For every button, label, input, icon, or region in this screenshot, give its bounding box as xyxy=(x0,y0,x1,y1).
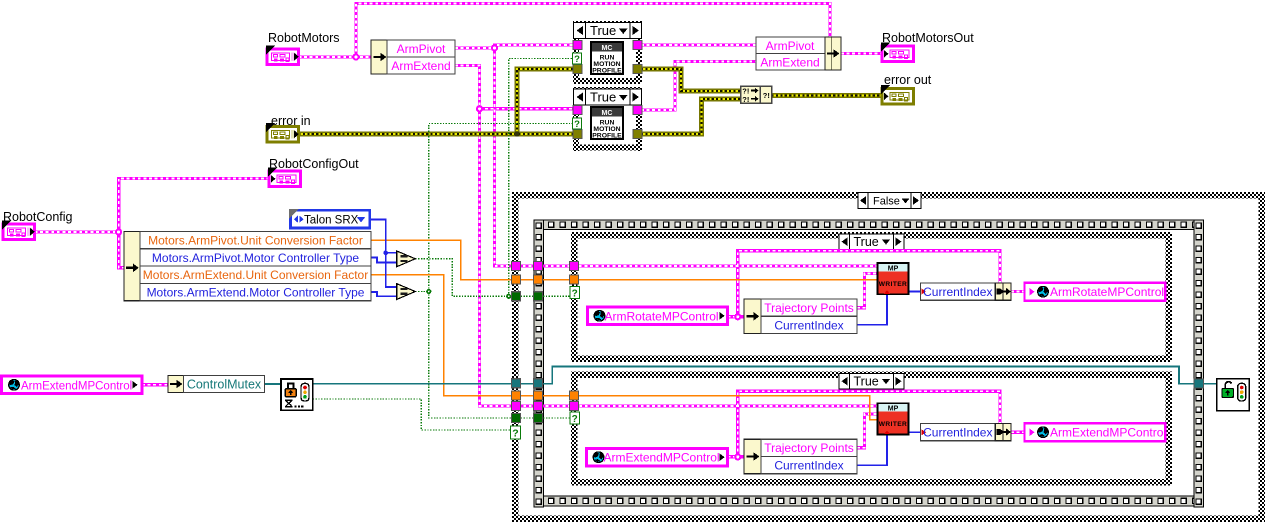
svg-text:ArmExtend: ArmExtend xyxy=(760,56,819,70)
svg-text:CurrentIndex: CurrentIndex xyxy=(923,285,992,299)
svg-text:MC: MC xyxy=(602,110,613,117)
svg-text:Motors.ArmExtend.Motor Control: Motors.ArmExtend.Motor Controller Type xyxy=(147,286,365,300)
svg-text:?: ? xyxy=(572,414,578,425)
svg-text:True: True xyxy=(854,375,879,389)
svg-text:True: True xyxy=(854,235,879,249)
svg-text:WRITER: WRITER xyxy=(879,281,907,288)
svg-text:?: ? xyxy=(574,119,580,130)
svg-text:?: ? xyxy=(512,428,518,440)
svg-text:ArmRotateMPControl: ArmRotateMPControl xyxy=(1050,285,1164,299)
svg-text:ArmRotateMPControl: ArmRotateMPControl xyxy=(605,309,719,323)
svg-text:PROFILE: PROFILE xyxy=(592,133,622,140)
svg-text:True: True xyxy=(590,23,616,38)
svg-text:True: True xyxy=(590,90,616,105)
svg-text:?!: ?! xyxy=(742,95,749,104)
svg-text:CurrentIndex: CurrentIndex xyxy=(923,426,992,440)
svg-text:Trajectory Points: Trajectory Points xyxy=(764,301,854,315)
svg-text:Trajectory Points: Trajectory Points xyxy=(764,441,854,455)
svg-text:ArmExtendMPControl: ArmExtendMPControl xyxy=(604,451,720,465)
svg-text:RobotMotors: RobotMotors xyxy=(268,31,340,45)
svg-text:?: ? xyxy=(574,54,580,65)
svg-text:Talon SRX: Talon SRX xyxy=(304,215,359,227)
svg-text:CurrentIndex: CurrentIndex xyxy=(774,318,843,332)
svg-text:RobotMotorsOut: RobotMotorsOut xyxy=(882,31,974,45)
svg-text:ArmExtend: ArmExtend xyxy=(391,59,450,73)
svg-text:ArmPivot: ArmPivot xyxy=(766,39,815,53)
svg-text:Motors.ArmPivot.Unit Conversio: Motors.ArmPivot.Unit Conversion Factor xyxy=(148,234,363,248)
svg-text:RobotConfig: RobotConfig xyxy=(3,210,73,224)
svg-text:MP: MP xyxy=(888,265,899,272)
svg-text:PROFILE: PROFILE xyxy=(592,68,622,75)
svg-text:WRITER: WRITER xyxy=(879,421,907,428)
svg-text:error out: error out xyxy=(884,73,932,87)
svg-text:Motors.ArmPivot.Motor Controll: Motors.ArmPivot.Motor Controller Type xyxy=(152,251,360,265)
svg-text:MC: MC xyxy=(602,45,613,52)
svg-text:RobotConfigOut: RobotConfigOut xyxy=(269,157,359,171)
svg-text:False: False xyxy=(873,196,900,208)
svg-text:?: ? xyxy=(572,288,578,299)
svg-text:ArmExtendMPControl: ArmExtendMPControl xyxy=(1050,426,1166,440)
svg-text:?!: ?! xyxy=(763,91,770,100)
svg-text:MP: MP xyxy=(888,406,899,413)
svg-text:Motors.ArmExtend.Unit Conversi: Motors.ArmExtend.Unit Conversion Factor xyxy=(143,268,368,282)
svg-text:CurrentIndex: CurrentIndex xyxy=(774,459,843,473)
svg-text:ControlMutex: ControlMutex xyxy=(187,378,262,392)
svg-text:ArmPivot: ArmPivot xyxy=(397,42,446,56)
svg-text:ArmExtendMPControl: ArmExtendMPControl xyxy=(21,380,132,392)
